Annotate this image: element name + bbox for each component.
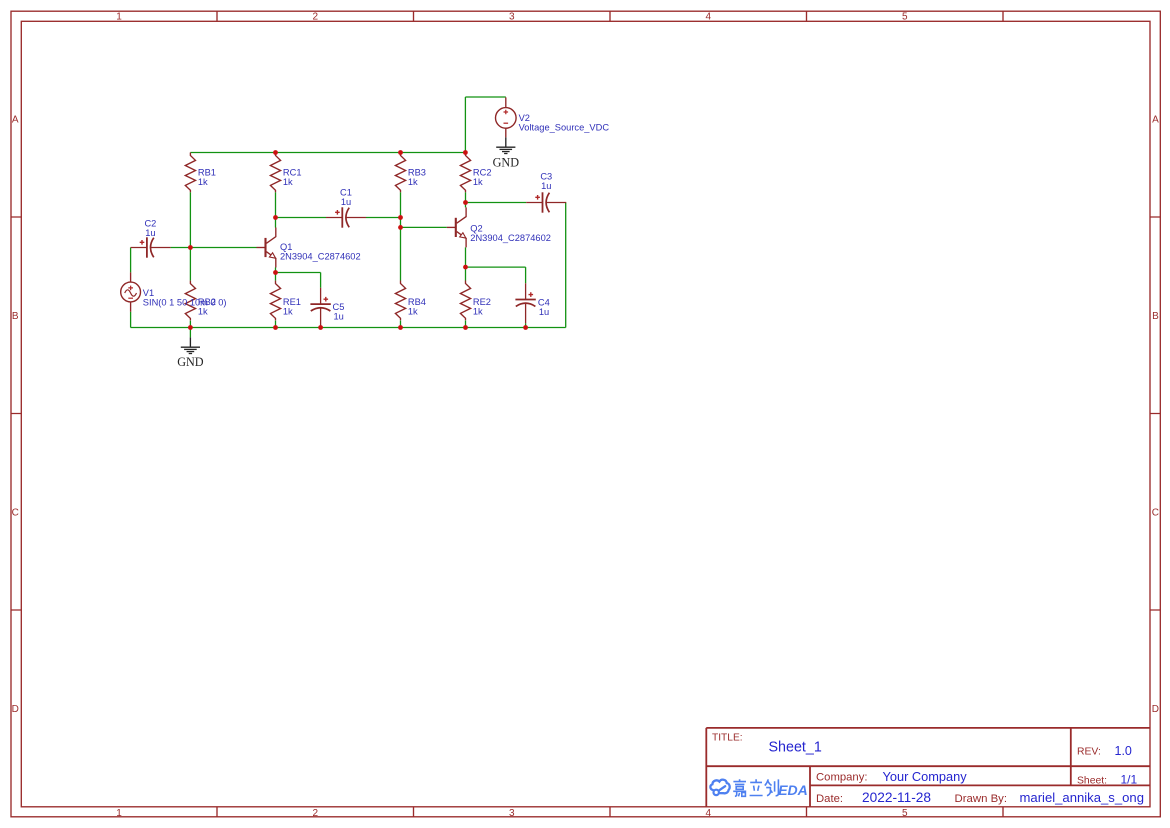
svg-text:RC1: RC1	[283, 168, 302, 178]
svg-text:SIN(0 1 50 10m 0 0): SIN(0 1 50 10m 0 0)	[143, 297, 227, 307]
svg-text:V1: V1	[143, 288, 154, 298]
svg-text:Voltage_Source_VDC: Voltage_Source_VDC	[519, 122, 610, 132]
svg-text:RE2: RE2	[473, 297, 491, 307]
svg-text:3: 3	[509, 12, 515, 23]
svg-text:1k: 1k	[408, 307, 418, 317]
svg-text:Company:: Company:	[816, 771, 868, 783]
svg-text:TITLE:: TITLE:	[712, 732, 743, 743]
svg-text:1/1: 1/1	[1121, 772, 1138, 786]
svg-text:mariel_annika_s_ong: mariel_annika_s_ong	[1020, 790, 1144, 805]
svg-text:B: B	[12, 311, 19, 322]
svg-text:D: D	[1152, 704, 1159, 715]
svg-text:Drawn By:: Drawn By:	[955, 793, 1008, 805]
svg-text:Sheet_1: Sheet_1	[769, 740, 822, 756]
svg-text:1k: 1k	[198, 307, 208, 317]
svg-text:RB4: RB4	[408, 297, 426, 307]
svg-text:4: 4	[706, 12, 712, 23]
svg-text:GND: GND	[493, 155, 520, 169]
svg-text:1.0: 1.0	[1115, 744, 1132, 758]
svg-text:Your Company: Your Company	[883, 769, 968, 784]
svg-text:REV:: REV:	[1077, 747, 1101, 758]
svg-text:1: 1	[116, 12, 122, 23]
svg-text:Date:: Date:	[816, 793, 843, 805]
svg-text:B: B	[1152, 311, 1159, 322]
svg-text:C5: C5	[333, 302, 345, 312]
svg-text:1u: 1u	[145, 228, 155, 238]
svg-text:A: A	[1152, 115, 1159, 126]
svg-text:RE1: RE1	[283, 297, 301, 307]
svg-text:1k: 1k	[283, 177, 293, 187]
svg-text:RC2: RC2	[473, 168, 492, 178]
svg-text:Sheet:: Sheet:	[1077, 776, 1107, 787]
svg-text:1k: 1k	[473, 307, 483, 317]
svg-text:V2: V2	[519, 113, 530, 123]
svg-text:Q2: Q2	[470, 224, 482, 234]
svg-text:1u: 1u	[334, 311, 344, 321]
svg-text:2022-11-28: 2022-11-28	[862, 790, 931, 805]
svg-text:1k: 1k	[408, 177, 418, 187]
svg-text:5: 5	[902, 808, 908, 819]
svg-text:1: 1	[116, 808, 122, 819]
svg-text:2N3904_C2874602: 2N3904_C2874602	[470, 233, 551, 243]
svg-text:5: 5	[902, 12, 908, 23]
svg-text:C: C	[12, 507, 19, 518]
svg-text:1u: 1u	[341, 197, 351, 207]
svg-text:3: 3	[509, 808, 515, 819]
svg-text:1k: 1k	[283, 307, 293, 317]
svg-text:2: 2	[313, 12, 319, 23]
svg-text:RB3: RB3	[408, 168, 426, 178]
svg-text:C: C	[1152, 507, 1159, 518]
svg-text:C4: C4	[538, 298, 550, 308]
svg-text:Q1: Q1	[280, 242, 292, 252]
svg-text:1u: 1u	[541, 181, 551, 191]
svg-text:2: 2	[313, 808, 319, 819]
svg-text:C1: C1	[340, 187, 352, 197]
svg-text:4: 4	[706, 808, 712, 819]
svg-text:1u: 1u	[539, 307, 549, 317]
svg-text:2N3904_C2874602: 2N3904_C2874602	[280, 252, 361, 262]
svg-text:1k: 1k	[198, 177, 208, 187]
svg-text:D: D	[12, 704, 19, 715]
svg-text:A: A	[12, 115, 19, 126]
svg-text:C3: C3	[540, 172, 552, 182]
svg-text:GND: GND	[177, 355, 204, 369]
svg-text:1k: 1k	[473, 177, 483, 187]
svg-text:RB1: RB1	[198, 168, 216, 178]
svg-text:EDA: EDA	[778, 782, 808, 798]
svg-text:C2: C2	[144, 219, 156, 229]
